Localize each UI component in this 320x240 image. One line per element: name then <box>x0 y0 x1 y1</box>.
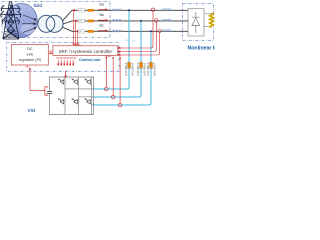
svg-text:VSI: VSI <box>28 108 35 113</box>
svg-text:Link: Link <box>27 52 34 56</box>
svg-text:Isb: Isb <box>100 13 104 17</box>
svg-text:Isc: Isc <box>100 23 104 27</box>
svg-text:kWh: kWh <box>79 31 82 33</box>
svg-text:iLf3 389 A: iLf3 389 A <box>146 63 150 76</box>
svg-text:S1,S3,S5,S4,S6,S2: S1,S3,S5,S4,S6,S2 <box>56 58 77 60</box>
svg-text:Grid: Grid <box>34 3 43 8</box>
svg-text:Vdc: Vdc <box>25 65 30 69</box>
svg-text:Control unit: Control unit <box>79 58 101 62</box>
svg-text:SRF / Hysteresis controller: SRF / Hysteresis controller <box>59 49 113 54</box>
svg-text:icf1 386 A: icf1 386 A <box>131 63 135 76</box>
svg-text:iLf2 387 A: iLf2 387 A <box>136 63 140 76</box>
svg-text:DC: DC <box>27 47 33 51</box>
svg-text:icf3 390 A: icf3 390 A <box>153 63 157 76</box>
svg-text:Nonlinear load: Nonlinear load <box>188 45 216 51</box>
svg-text:Vsabc: Vsabc <box>73 42 81 46</box>
svg-text:kWh: kWh <box>79 10 82 12</box>
svg-text:regulation (PI): regulation (PI) <box>19 58 42 62</box>
svg-text:Isa: Isa <box>100 2 104 6</box>
svg-text:kWh: kWh <box>79 21 82 23</box>
svg-text:iLf1 385 A: iLf1 385 A <box>124 63 128 76</box>
